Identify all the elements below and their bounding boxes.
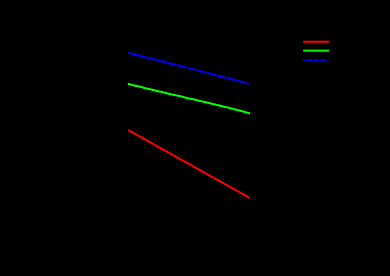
legend green sample (303, 50, 329, 52)
red solid data line (128, 130, 250, 198)
blue dashed data line (128, 53, 249, 85)
legend blue dashed sample (303, 59, 328, 61)
legend red sample (303, 41, 329, 43)
green solid data line (128, 84, 250, 114)
